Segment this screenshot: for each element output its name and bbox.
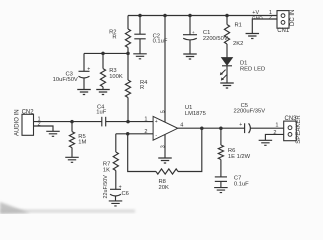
- node junction R3: [101, 52, 105, 56]
- ground R3: [96, 90, 110, 95]
- ground C7: [214, 188, 228, 193]
- capacitor C5: [244, 123, 246, 133]
- svg-text:SPEAKER: SPEAKER: [296, 115, 302, 144]
- connector CN3: [284, 121, 297, 141]
- resistor R1: [226, 16, 228, 25]
- node junction R2/R4: [126, 52, 130, 56]
- capacitor C6: [110, 188, 121, 190]
- svg-text:CN1: CN1: [277, 28, 290, 34]
- ground C3: [77, 90, 91, 95]
- svg-text:C6: C6: [122, 191, 129, 197]
- resistor R2: [127, 16, 129, 30]
- capacitor C3: [83, 53, 85, 71]
- svg-text:+: +: [155, 119, 158, 125]
- capacitor C2: [139, 16, 141, 35]
- wire CN1 pin2 to ground: [252, 19, 277, 34]
- svg-text:2K2: 2K2: [233, 41, 243, 47]
- svg-text:1M: 1M: [78, 140, 86, 146]
- ground CN2: [46, 131, 60, 136]
- resistor R7: [115, 134, 117, 152]
- svg-text:CN2: CN2: [22, 110, 35, 116]
- svg-text:22uF/50V: 22uF/50V: [103, 175, 109, 199]
- svg-text:1E 1/2W: 1E 1/2W: [228, 154, 251, 160]
- ground CN3: [259, 140, 273, 145]
- svg-text:100K: 100K: [109, 74, 123, 80]
- svg-text:1uF: 1uF: [96, 110, 106, 116]
- svg-text:20K: 20K: [159, 185, 169, 191]
- ground CN1: [246, 34, 259, 39]
- svg-text:5: 5: [161, 110, 167, 113]
- scan artifact corner smudge: [0, 202, 30, 214]
- svg-text:2: 2: [269, 15, 272, 21]
- ground C2: [133, 54, 147, 59]
- svg-text:2200/50V: 2200/50V: [203, 36, 228, 42]
- svg-text:R: R: [112, 34, 116, 40]
- wire output line: [178, 127, 245, 129]
- svg-text:2200uF/35V: 2200uF/35V: [234, 109, 266, 115]
- junction R6: [219, 126, 223, 130]
- wire U1 pin5 supply: [164, 16, 166, 123]
- connector CN1: [277, 11, 289, 29]
- connector CN2: [22, 114, 34, 135]
- svg-text:R1: R1: [235, 23, 242, 29]
- svg-text:LM1875: LM1875: [185, 111, 206, 117]
- resistor R5: [71, 122, 73, 132]
- ground C6: [109, 201, 123, 206]
- LED D1: [222, 58, 233, 66]
- svg-text:R: R: [140, 85, 144, 91]
- wire U1 pin3 to ground: [164, 135, 166, 159]
- svg-text:1: 1: [275, 123, 278, 129]
- junction R4/pin1: [126, 120, 130, 124]
- wire +V top rail: [128, 15, 277, 17]
- junction feedback: [126, 132, 130, 136]
- svg-text:0.1uF: 0.1uF: [153, 39, 168, 45]
- svg-text:1: 1: [144, 116, 147, 122]
- svg-text:+: +: [87, 66, 90, 72]
- ground D1: [220, 83, 234, 88]
- wire feedback loop: [128, 134, 156, 172]
- wire pin2 line: [116, 133, 153, 135]
- svg-text:+: +: [119, 184, 122, 190]
- junction R5: [70, 120, 74, 124]
- ground C1: [183, 54, 197, 59]
- ground U1 pin3: [158, 158, 172, 163]
- scan artifact bottom band: [0, 210, 135, 213]
- svg-text:AUDIO IN: AUDIO IN: [15, 109, 21, 136]
- svg-text:DC IN: DC IN: [290, 10, 296, 26]
- op-amp U1: [153, 116, 178, 140]
- svg-text:+: +: [192, 31, 195, 36]
- capacitor C7: [215, 176, 227, 178]
- capacitor C1: [189, 16, 191, 35]
- svg-text:+V: +V: [252, 10, 259, 16]
- LED D1 emission arrows: [221, 70, 225, 74]
- wire CN3 pin2 to ground: [265, 134, 283, 140]
- capacitor C4: [101, 117, 103, 127]
- wire input line: [34, 121, 102, 123]
- svg-text:1K: 1K: [103, 167, 110, 173]
- resistor R3: [102, 53, 104, 68]
- wire CN2 pin2 to ground: [34, 126, 54, 131]
- resistor R4: [127, 53, 129, 80]
- svg-text:RED LED: RED LED: [240, 67, 265, 73]
- resistor R8: [156, 169, 178, 174]
- svg-text:10uF/50V: 10uF/50V: [53, 77, 78, 83]
- resistor R6: [220, 128, 222, 145]
- wire bias node line: [84, 52, 128, 54]
- ground R5: [65, 157, 79, 162]
- junction feedback/output: [200, 126, 204, 130]
- svg-text:3: 3: [161, 145, 167, 148]
- svg-text:+: +: [239, 122, 242, 128]
- junction C2 top: [138, 14, 142, 18]
- svg-text:0.1uF: 0.1uF: [234, 182, 249, 188]
